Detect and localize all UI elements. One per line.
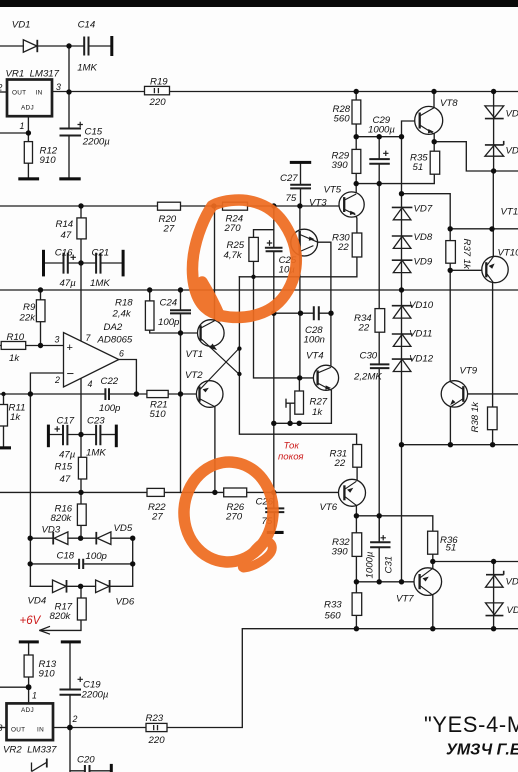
resistor R37	[446, 241, 456, 264]
wire C15 bottom to ground	[68, 136, 70, 177]
capacitor C30	[370, 364, 390, 368]
svg-text:VT10: VT10	[498, 248, 518, 259]
svg-text:100p: 100p	[99, 403, 121, 414]
top black border bar	[0, 0, 518, 7]
svg-text:390: 390	[332, 160, 349, 171]
node C25 bottom/C28 left	[271, 311, 276, 316]
wire op-amp pin4 down through C17/C23 node to R15	[80, 378, 82, 457]
diode VD1	[23, 40, 37, 52]
node feedback/R11	[28, 391, 33, 396]
wire C23 row	[101, 434, 115, 436]
node VT6 collector/R32	[354, 513, 359, 518]
capacitor C25	[265, 248, 283, 252]
wire VD15/VD16 column	[493, 562, 495, 629]
ground under R12	[18, 177, 39, 180]
wire C21 row	[101, 262, 121, 264]
node R25 bottom	[251, 275, 255, 279]
svg-text:C23: C23	[87, 416, 105, 427]
transistor VT5	[339, 192, 364, 217]
node VT1 emitter join	[237, 372, 241, 376]
terminal bar at C23 right	[115, 425, 118, 448]
rail y=206 row with R20,R24 to VT5 base	[0, 205, 344, 207]
wire VD13/VD14 column	[493, 92, 495, 172]
wire VD7..VD12 bias column x=401.5	[401, 137, 403, 582]
svg-text:VD5: VD5	[114, 523, 133, 534]
terminal bar at C16 left	[42, 250, 45, 277]
resistor R14	[77, 218, 86, 239]
svg-text:390: 390	[332, 547, 349, 558]
wire VT3 collector down to VT4 base row	[299, 256, 301, 378]
wire C31 column	[378, 516, 380, 542]
ground under R11	[0, 446, 11, 449]
svg-text:VD4: VD4	[28, 596, 47, 607]
resistor R20	[158, 202, 181, 210]
node VT2 collector/R26	[212, 490, 217, 495]
svg-text:VT1: VT1	[186, 349, 204, 360]
svg-text:22k: 22k	[19, 313, 37, 324]
node C31 bottom	[377, 579, 382, 584]
transistor VT6	[339, 479, 366, 506]
node R16/VD3/VD5	[78, 536, 83, 541]
diode VD5	[96, 532, 111, 545]
capacitor C20	[85, 765, 90, 772]
svg-text:+6V: +6V	[20, 615, 42, 627]
node R37/VT10 base/VT9 collector	[448, 268, 453, 273]
resistor R25	[249, 237, 258, 261]
wire VT7 collector to bottom rail	[432, 595, 434, 629]
node R28 top	[354, 89, 359, 94]
node VD9/VD10 on rail	[399, 287, 404, 292]
svg-text:VD3: VD3	[42, 525, 61, 536]
svg-text:R33: R33	[324, 600, 342, 611]
svg-text:VT5: VT5	[324, 185, 342, 196]
supply bar above C19	[61, 640, 81, 643]
node R28/R29	[354, 134, 359, 139]
node VD14 bottom	[491, 168, 496, 173]
ground under C15	[59, 177, 80, 180]
svg-text:220: 220	[148, 735, 166, 746]
resistor R10	[1, 342, 26, 350]
svg-text:ADJ: ADJ	[21, 105, 34, 112]
svg-text:2: 2	[0, 83, 3, 93]
svg-text:R27: R27	[310, 397, 328, 408]
wire row y=515.8 VT6 collector to R36	[356, 505, 432, 532]
svg-text:VT7: VT7	[396, 594, 414, 605]
wire C28 row y=313	[274, 312, 331, 314]
node R33 on bottom rail	[354, 626, 359, 631]
wire C17 row	[50, 434, 95, 436]
node C29 top	[377, 134, 382, 139]
node R27 row left	[271, 421, 276, 426]
node output/C22/R21	[134, 391, 139, 396]
svg-text:C27: C27	[280, 173, 298, 184]
resistor R26	[224, 488, 247, 497]
wire R25 top jog	[254, 230, 274, 238]
resistor R34	[375, 309, 385, 333]
svg-text:27: 27	[151, 512, 163, 523]
svg-text:R38 1k: R38 1k	[470, 401, 481, 433]
wire VT9 emitter to row y=444.7	[449, 407, 451, 445]
svg-text:VT11: VT11	[501, 207, 518, 218]
wire R18 vertical and bottom jog to VT1 base node	[150, 290, 181, 333]
svg-text:VR2 LM337: VR2 LM337	[3, 745, 57, 756]
svg-text:22: 22	[337, 242, 349, 253]
wire VT4 emitter down and row y=423	[274, 390, 332, 423]
svg-text:VT4: VT4	[306, 351, 324, 362]
svg-text:+: +	[67, 342, 73, 354]
svg-text:1MK: 1MK	[86, 448, 106, 459]
node VD5 right	[130, 536, 135, 541]
resistor R29	[352, 149, 361, 173]
terminal bar at C27 top	[290, 161, 311, 164]
wire C24 column down to VT1/VT2 base node and row y=492	[180, 290, 182, 492]
svg-text:3: 3	[55, 335, 60, 345]
svg-text:47: 47	[61, 230, 72, 241]
resistor R9	[36, 300, 45, 322]
svg-text:OUT: OUT	[12, 90, 26, 97]
resistor R22	[147, 488, 164, 496]
supply bar above R13	[19, 640, 39, 643]
diode VD7	[392, 207, 413, 219]
svg-text:−: −	[67, 366, 75, 381]
node VD1/C14	[66, 43, 71, 48]
node R27 wiper	[287, 421, 292, 426]
node VT4 base/R27 top	[297, 375, 302, 380]
main +rail y=91 from VR1 IN through R19 to right edge	[52, 91, 518, 93]
capacitor C21	[96, 253, 100, 274]
svg-text:R18: R18	[115, 298, 133, 309]
wire row y=193.7 VD7 node to R37	[402, 194, 451, 241]
node C29 bottom	[377, 181, 382, 186]
node VT1 collector on rail	[211, 203, 216, 208]
diode VD16	[486, 603, 504, 616]
resistor R21	[147, 390, 168, 397]
node R24/R25/C25	[271, 203, 276, 208]
wire VT2 collector down to row y=492	[214, 407, 216, 493]
svg-text:VD1: VD1	[12, 20, 31, 31]
node R37 top	[448, 226, 453, 231]
svg-text:820k: 820k	[51, 513, 73, 524]
svg-text:VD9: VD9	[414, 257, 433, 268]
node bias chain on row	[399, 442, 404, 447]
wire C25 column x=274 down through C28 node, R27 node, row 492, to C26	[273, 206, 276, 531]
svg-text:6: 6	[119, 349, 124, 359]
node VD13 top	[491, 89, 496, 94]
svg-text:51: 51	[446, 543, 457, 554]
orange hook stroke of ring 2	[244, 542, 273, 569]
capacitor C17	[63, 425, 67, 445]
node R14 top on +rail	[78, 203, 83, 208]
wire VD4/VD6 row	[30, 585, 133, 587]
wire diode-block right vertical	[132, 538, 134, 586]
resistor R18	[145, 301, 154, 330]
wire VT1 base	[181, 332, 200, 334]
wire VD1 to node, C14 branch	[38, 45, 111, 47]
svg-text:51: 51	[413, 162, 424, 173]
svg-text:VD11: VD11	[409, 329, 432, 340]
orange highlighter ring 1 around R24/R25	[192, 200, 296, 317]
terminal bar at C17 left	[47, 425, 50, 448]
wire VT1 collector up to rail	[214, 206, 216, 321]
wire C18 row	[30, 563, 133, 565]
capacitor C14	[84, 37, 88, 56]
svg-text:R14: R14	[56, 219, 74, 230]
node R13/VR2 ADJ	[26, 684, 32, 690]
node C28 right/VT4 collector	[328, 311, 333, 316]
wire terminal bars to R13 and C19 columns	[0, 643, 29, 703]
svg-text:820k: 820k	[50, 611, 72, 622]
svg-text:VT8: VT8	[440, 98, 458, 109]
svg-text:VD10: VD10	[409, 300, 434, 311]
capacitor C22	[105, 388, 109, 400]
svg-text:VD7: VD7	[414, 204, 433, 215]
wire op-amp pin2 row and feedback left vertical	[30, 373, 63, 586]
wire VT5 emitter to R30	[355, 215, 357, 233]
wire C16 row	[45, 262, 95, 264]
resistor R16	[77, 504, 86, 525]
node C31 top	[377, 513, 382, 518]
node R38 bottom	[490, 442, 495, 447]
svg-text:VT9: VT9	[460, 366, 478, 377]
resistor R27	[295, 391, 304, 414]
wire VR1 OUT left	[0, 91, 7, 93]
svg-text:27: 27	[163, 224, 175, 235]
svg-text:2,2MK: 2,2MK	[353, 372, 382, 383]
svg-text:560: 560	[325, 611, 342, 622]
node VD4/VD6/R17	[78, 584, 83, 589]
node VT7 collector on bottom rail	[430, 626, 435, 631]
polarity plus signs	[55, 122, 389, 682]
diode VD2 partial bottom left	[32, 759, 47, 772]
wire VD3/VD5 row	[30, 537, 133, 539]
node VD7 top	[399, 191, 404, 196]
svg-text:47µ: 47µ	[60, 278, 77, 289]
wire R28 top from rail, R28-R29 node row y=136.7	[356, 92, 401, 150]
wire R29 bottom row y=183.6 to R35 bottom	[356, 173, 434, 183]
node R15/R16 on row	[78, 490, 83, 495]
capacitor C24	[170, 310, 191, 313]
capacitor C28	[314, 306, 319, 320]
node VT8 base	[399, 134, 404, 139]
capacitor C29	[369, 159, 390, 164]
node VT1 base	[178, 330, 183, 335]
transistor VT10	[482, 256, 508, 282]
svg-text:VD1: VD1	[506, 577, 518, 588]
resistor R15	[78, 457, 86, 479]
svg-text:"YES-4-M: "YES-4-M	[424, 712, 518, 737]
node C24 top	[178, 287, 183, 292]
node C18 right	[130, 561, 135, 566]
resistor R32	[352, 533, 362, 557]
svg-text:1k: 1k	[312, 407, 323, 418]
svg-text:IN: IN	[37, 727, 44, 734]
svg-text:100n: 100n	[304, 335, 325, 346]
node R27 bottom	[297, 421, 302, 426]
transistor VT7	[414, 568, 442, 596]
svg-text:R19: R19	[150, 77, 168, 88]
transistors	[196, 106, 508, 595]
wire VR2 IN to R23	[53, 727, 146, 729]
node VT3 collector at C28 row	[298, 311, 303, 316]
wire R17 column and +6V arrow line	[40, 586, 81, 630]
long horizontal y=277 R30 bottom to emitter column	[239, 257, 357, 277]
ground under C26	[267, 531, 284, 534]
resistor R12	[24, 142, 32, 164]
svg-text:R10: R10	[7, 332, 25, 343]
node C17/C23/pin4	[78, 432, 83, 437]
svg-text:270: 270	[224, 223, 242, 234]
svg-text:2200µ: 2200µ	[81, 690, 109, 701]
svg-text:C20: C20	[77, 755, 95, 766]
node R32/R33	[354, 579, 359, 584]
diode VD9	[392, 260, 413, 272]
svg-text:220: 220	[149, 97, 167, 108]
wire VR2 OUT left	[0, 727, 7, 729]
wire VT8 emitter node to R35 and right jog	[434, 134, 518, 171]
wire R37 bottom to VT10 base, VT9 collector column	[450, 263, 486, 381]
diode VD13	[485, 106, 504, 119]
svg-text:C30: C30	[360, 351, 378, 362]
wire R11 vertical to ground	[3, 394, 5, 446]
wire R36 bottom node to VT7 emitter, row y=561.5	[433, 554, 518, 568]
row y=492 input bias to VT6 base	[0, 491, 344, 493]
capacitor C16	[64, 253, 68, 274]
svg-text:2,4k: 2,4k	[112, 309, 132, 320]
resistor R28	[352, 100, 361, 124]
capacitor C19	[60, 690, 82, 695]
wire R14 top/bottom vertical through C16-C21 node to op-amp pin7	[80, 206, 82, 341]
diode VD6	[96, 580, 110, 593]
svg-text:VT3: VT3	[309, 198, 327, 209]
diode VD14	[485, 141, 504, 156]
node VD3 left	[28, 536, 33, 541]
wire R9 vertical	[40, 290, 42, 346]
resistor R30	[352, 233, 362, 257]
svg-text:R23: R23	[146, 713, 164, 724]
node VD16 bottom	[491, 626, 496, 631]
svg-text:22: 22	[334, 458, 346, 469]
resistor R19	[145, 86, 170, 94]
wire VT5 collector stub	[355, 184, 357, 194]
svg-text:C22: C22	[101, 376, 119, 387]
svg-text:VT6: VT6	[320, 502, 338, 513]
svg-text:VD1: VD1	[507, 605, 518, 616]
node VT10 collector branch	[489, 226, 494, 231]
svg-text:AD8065: AD8065	[97, 335, 133, 346]
wire R27 top to VT4 base node	[298, 378, 300, 391]
svg-text:560: 560	[334, 114, 351, 125]
node VT2 emitter join	[237, 346, 241, 350]
node R11 top	[1, 392, 5, 396]
wire row y=229 R37 top to right edge	[450, 228, 518, 230]
wire right column x=493 down to VT10	[492, 171, 494, 257]
node R9/R10/pin3	[38, 343, 43, 348]
svg-text:3: 3	[0, 723, 3, 733]
svg-text:C16: C16	[55, 248, 73, 259]
svg-text:VD8: VD8	[414, 232, 433, 243]
capacitor C31	[370, 542, 390, 547]
wire R32 bottom to VT7 base row	[356, 556, 419, 592]
capacitor C15	[60, 129, 82, 136]
node C16/C21/pin7	[78, 260, 83, 265]
transistor VT3	[291, 229, 318, 256]
svg-text:4,7k: 4,7k	[224, 250, 243, 261]
svg-text:47µ: 47µ	[59, 450, 76, 461]
orange pen-end stroke of ring 1	[202, 282, 220, 316]
terminal bar at C21 right	[122, 250, 125, 277]
diode VD4	[53, 580, 67, 593]
wire VT3 base from rail	[299, 206, 301, 229]
svg-text:OUT: OUT	[11, 727, 25, 734]
svg-text:VD1: VD1	[506, 109, 518, 120]
svg-text:C24: C24	[160, 298, 178, 309]
wire R23 right, up, bottom rail y=628.7	[167, 629, 518, 728]
svg-text:1MK: 1MK	[77, 63, 97, 74]
capacitor C26	[265, 508, 284, 512]
resistor R24	[223, 202, 248, 210]
resistor R11	[0, 405, 8, 427]
svg-text:2: 2	[72, 714, 78, 724]
resistor R23	[146, 723, 167, 731]
orange blob dot	[238, 563, 247, 572]
svg-text:R37 1k: R37 1k	[461, 239, 472, 271]
wire C20 row stub	[70, 770, 110, 772]
svg-text:C31: C31	[384, 556, 395, 574]
wire R27 wiper	[286, 399, 295, 423]
svg-text:IN: IN	[36, 90, 43, 97]
capacitor C27	[290, 185, 311, 189]
svg-text:1000µ: 1000µ	[365, 551, 376, 578]
node C27/VT3 base	[297, 203, 302, 208]
wire R31 bottom to VT6	[356, 467, 358, 479]
terminal bar at C20 right	[110, 764, 113, 772]
svg-text:DA2: DA2	[104, 322, 123, 333]
wire VT3 emitter right then down to C28 node and VT4 collector	[318, 242, 331, 367]
wire R33 bottom to bottom rail	[355, 615, 357, 628]
svg-text:C21: C21	[92, 248, 110, 259]
resistor R31	[353, 445, 362, 468]
wire R25 bottom down to VT4 base row	[254, 261, 318, 378]
svg-text:1MK: 1MK	[90, 278, 110, 289]
node VT8 emitter/R35	[432, 139, 437, 144]
node VR2 IN/C19	[67, 725, 73, 731]
node VT2 base	[178, 391, 183, 396]
resistor R36	[428, 531, 438, 554]
node R29/VT5 collector	[354, 181, 359, 186]
IC regulator VR1 LM317 box	[7, 80, 52, 117]
svg-text:4: 4	[88, 379, 93, 389]
svg-text:1: 1	[20, 121, 25, 131]
diode VD15	[486, 571, 504, 588]
wire op-amp output to feedback node	[119, 360, 137, 395]
+6V arrowhead	[40, 626, 50, 634]
node R36 bottom/VT7 emitter	[430, 559, 435, 564]
svg-text:УМЗЧ Г.Е: УМЗЧ Г.Е	[446, 742, 518, 759]
svg-text:1000µ: 1000µ	[368, 125, 395, 136]
node VD12 chain at VT7 base	[399, 579, 404, 584]
node VD15 top	[491, 559, 496, 564]
svg-text:22: 22	[358, 323, 370, 334]
node VR1 ADJ/R12	[26, 130, 31, 135]
terminal bar at C14	[110, 36, 113, 56]
svg-text:C18: C18	[57, 551, 75, 562]
svg-text:ADJ: ADJ	[21, 707, 34, 714]
wire row y=444.7	[402, 444, 518, 446]
wire R10 row to op-amp pin3	[0, 345, 64, 347]
resistor R17	[77, 598, 86, 620]
resistor R35	[430, 151, 440, 174]
node VT8 collector	[431, 89, 436, 94]
